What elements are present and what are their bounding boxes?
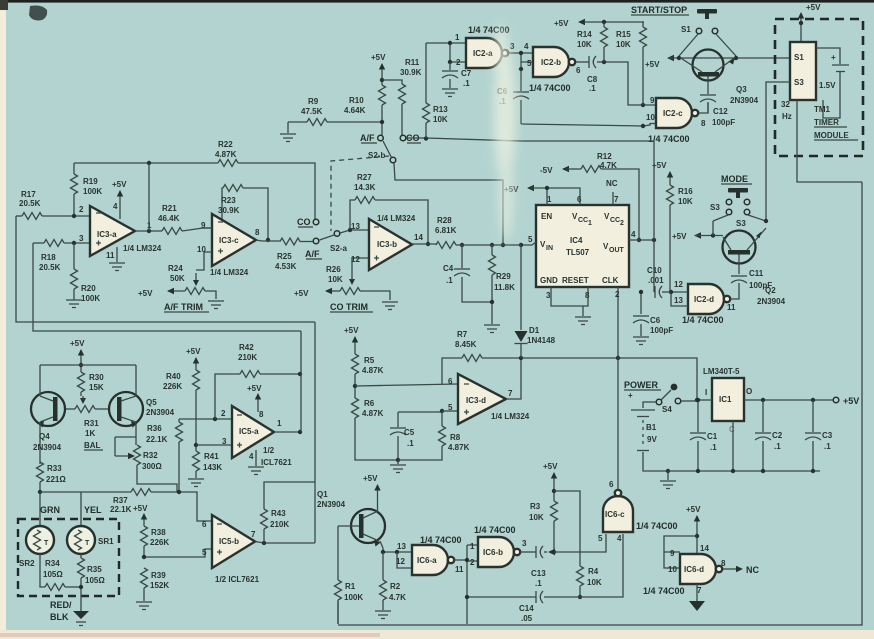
svg-text:105Ω: 105Ω [85,576,105,585]
svg-text:R31: R31 [84,419,99,428]
svg-text:8: 8 [255,228,260,237]
svg-text:R8: R8 [450,433,461,442]
svg-text:R42: R42 [239,343,254,352]
wire VIN line [460,235,536,247]
wire IC3-c pin10 to trim [196,252,212,270]
resistor R2 [380,552,407,610]
node CO (S2-b) [406,133,421,143]
svg-text:210K: 210K [238,353,257,362]
svg-text:210K: 210K [270,520,289,529]
svg-text:4: 4 [631,230,636,239]
transistor Q3 [680,50,759,106]
+5V arrow R40 [186,347,201,370]
svg-text:R25: R25 [277,252,292,261]
svg-text:R36: R36 [147,424,162,433]
svg-text:2: 2 [221,409,226,418]
svg-text:10: 10 [646,113,655,122]
svg-text:MODE: MODE [721,174,748,184]
ground R2 [375,611,391,619]
wire pin10 line [521,96,656,128]
ground IC3-a pin11 [109,247,125,271]
svg-text:R10: R10 [349,96,364,105]
resistor R21 [158,204,212,235]
svg-text:5: 5 [448,403,453,412]
svg-text:C1: C1 [707,432,718,441]
svg-text:6: 6 [448,377,453,386]
+5V arrow TL507 [504,185,582,205]
svg-text:R14: R14 [577,30,592,39]
wire IC5-b pin5 [142,549,212,559]
svg-text:2N3904: 2N3904 [730,96,759,105]
svg-text:POWER: POWER [624,380,659,390]
resistor R5 [352,354,384,398]
svg-text:3: 3 [222,437,227,446]
TL507 gnd reset pins [546,287,590,316]
wire IC1 input [697,399,712,401]
svg-text:1/2 ICL7621: 1/2 ICL7621 [215,575,260,584]
svg-text:+5V: +5V [138,289,153,298]
svg-text:IC1: IC1 [719,395,732,404]
svg-text:C6: C6 [650,316,661,325]
NAND IC6-c [598,480,633,543]
pushbutton S1 [679,9,736,56]
svg-text:R40: R40 [166,372,181,381]
wire CLK pin [615,287,620,357]
svg-text:R16: R16 [678,187,693,196]
wire IC2-d inputs [669,290,688,306]
NAND IC2-c [656,98,708,128]
svg-text:8: 8 [721,559,726,568]
svg-text:100pF: 100pF [650,326,673,335]
svg-text:13: 13 [351,222,360,231]
regulator IC1 [703,367,752,434]
resistor R27 [350,173,430,246]
svg-text:1/4 LM324: 1/4 LM324 [210,268,249,277]
svg-text:4.87K: 4.87K [215,150,237,159]
resistor R39 [141,568,170,601]
label POWER [624,380,661,390]
svg-text:C5: C5 [404,428,415,437]
ground TL507 [575,317,591,325]
resistor R17 [16,190,90,220]
svg-text:4: 4 [617,534,622,543]
svg-text:IC4: IC4 [570,236,583,245]
NAND IC2-b [533,47,581,77]
switch S4 [656,384,697,414]
dashed gang link S2 [331,156,389,231]
svg-text:IN: IN [546,245,553,252]
svg-text:143K: 143K [203,463,222,472]
svg-text:105Ω: 105Ω [43,570,63,579]
svg-text:+5V: +5V [843,396,859,406]
-5V R12 [540,152,641,242]
wire bottom run [337,602,339,624]
svg-text:IC2-a: IC2-a [473,49,493,58]
crease streak [494,25,516,240]
svg-text:-5V: -5V [540,166,553,175]
svg-text:4: 4 [113,202,118,211]
wire S2-b pole to VIN [394,163,503,245]
svg-text:.1: .1 [710,443,717,452]
svg-text:R41: R41 [204,452,219,461]
svg-text:SR2: SR2 [19,559,35,568]
svg-text:GRN: GRN [40,505,60,515]
svg-text:ICL7621: ICL7621 [261,458,292,467]
svg-text:7: 7 [697,586,702,595]
svg-text:GND: GND [540,276,558,285]
resistor R13 [423,43,449,138]
svg-text:1K: 1K [85,429,95,438]
svg-text:S2-b: S2-b [368,151,385,160]
sensor dashed box [18,519,119,596]
svg-text:+: + [831,53,836,62]
wire timer S3 out bottom [797,100,862,182]
svg-text:3: 3 [546,291,551,300]
svg-text:MODULE: MODULE [814,131,849,140]
label RED/BLK [50,600,72,622]
+5V arrow R38 [133,504,148,526]
node A/F (S2-b) [360,133,377,143]
resistor R35 [78,554,106,611]
svg-text:T: T [85,540,90,547]
svg-text:RED/: RED/ [50,600,72,610]
node A/F (S2-a) [305,249,322,259]
svg-text:1: 1 [455,33,460,42]
svg-text:Q4: Q4 [39,432,50,441]
NAND IC6-a [396,542,464,575]
svg-text:R18: R18 [41,253,56,262]
label 1/4 74C00 IC2-a [468,25,510,35]
svg-text:1: 1 [470,542,475,551]
svg-text:BLK: BLK [50,612,69,622]
svg-text:2: 2 [620,220,624,227]
svg-text:CO TRIM: CO TRIM [330,302,368,312]
svg-text:1/4 74C00: 1/4 74C00 [529,83,571,93]
wire IC6-d input loop [664,536,697,574]
label 1/4 74C00 IC2-b [529,83,571,93]
svg-text:2N3904: 2N3904 [757,297,786,306]
svg-text:10K: 10K [328,275,343,284]
label YEL [84,505,102,515]
resistor R41 [193,443,223,478]
svg-text:+5V: +5V [186,347,201,356]
svg-text:R30: R30 [89,373,104,382]
resistor R22 [215,140,315,219]
svg-text:R39: R39 [151,571,166,580]
wire S2-a pole to IC3-b pin13 [340,228,369,233]
capacitor C12 [700,77,735,128]
+5V arrow Q1 [363,474,381,512]
wire C14 to IC6-c pin4 [580,534,623,597]
svg-text:R15: R15 [616,30,631,39]
svg-text:4.7K: 4.7K [389,593,406,602]
svg-text:R32: R32 [143,451,158,460]
svg-text:5: 5 [528,235,533,244]
svg-text:10K: 10K [587,578,602,587]
wire R5R6 node to pin6 [355,384,458,386]
wire IC3-c input pin9 [203,227,212,229]
svg-text:12: 12 [674,280,683,289]
svg-text:5: 5 [527,59,532,68]
label MODE [721,174,752,184]
svg-text:+5V: +5V [371,53,386,62]
resistor R19 [71,163,103,218]
svg-text:+: + [628,391,633,400]
capacitor C10 [647,266,671,298]
op-amp IC5-b [202,515,256,568]
capacitor C11 [731,255,772,300]
IC6-d pin7 return [689,584,705,611]
wire IC6-c output to CLK [617,357,619,490]
svg-text:4.7K: 4.7K [600,161,617,170]
svg-text:C14: C14 [519,604,534,613]
svg-text:12: 12 [351,255,360,264]
svg-text:+5V: +5V [294,289,309,298]
svg-text:YEL: YEL [84,505,102,515]
transistor Q1 [338,509,385,548]
svg-text:32: 32 [781,100,790,109]
resistor R20 [71,243,101,303]
svg-text:R1: R1 [345,582,356,591]
resistor R11 [382,58,422,135]
svg-text:TM1: TM1 [814,105,831,114]
svg-text:C12: C12 [713,107,728,116]
svg-text:5: 5 [598,534,603,543]
op-amp IC5-a [232,406,282,461]
svg-text:IC3-b: IC3-b [377,240,397,249]
resistor R6 [352,398,399,460]
svg-text:4.87K: 4.87K [362,409,384,418]
label 1/4 74C00 IC6-a [420,535,462,545]
svg-text:6: 6 [202,520,207,529]
capacitor C6 100pF [633,290,673,336]
svg-text:R37: R37 [113,496,128,505]
svg-text:R20: R20 [81,284,96,293]
svg-text:R24: R24 [168,264,183,273]
op-amp IC3-d [448,374,513,424]
svg-text:7: 7 [508,389,513,398]
svg-text:4: 4 [524,42,529,51]
sensor SR2 [19,492,54,568]
svg-text:S1: S1 [681,25,691,34]
transistor Q2 [723,219,786,306]
svg-text:46.4K: 46.4K [158,214,180,223]
svg-text:5: 5 [202,548,207,557]
svg-text:OUT: OUT [609,247,625,254]
ground C7 [442,89,458,97]
+5V arrow R30 [70,339,85,372]
wire feedback B left [33,243,301,331]
svg-text:C13: C13 [531,569,546,578]
capacitor C6 (.1) [497,62,529,124]
svg-text:IC2-d: IC2-d [694,295,714,304]
ground CO trim [382,302,398,310]
label 32 Hz [781,100,792,121]
svg-text:R13: R13 [433,105,448,114]
svg-text:.1: .1 [535,579,542,588]
svg-text:1/4 LM324: 1/4 LM324 [377,214,416,223]
svg-text:226K: 226K [163,382,182,391]
capacitor C1 [690,398,718,471]
svg-text:2N3904: 2N3904 [33,443,62,452]
svg-text:3: 3 [522,539,527,548]
resistor R30 [78,372,105,396]
svg-text:1/4 74C00: 1/4 74C00 [682,315,724,325]
svg-text:100K: 100K [344,593,363,602]
wire VOUT [629,230,656,242]
svg-text:2: 2 [456,58,461,67]
svg-text:.1: .1 [407,439,414,448]
svg-text:B1: B1 [646,423,657,432]
capacitor C13 [520,546,555,588]
resistor R8 [398,411,470,460]
resistor R28 [412,216,521,249]
svg-text:R3: R3 [530,502,541,511]
svg-text:IC6-c: IC6-c [605,510,625,519]
svg-text:22.1K: 22.1K [146,435,168,444]
wire IC2-a out to IC2-b [508,42,533,68]
+5V arrow S1 rail [645,55,790,69]
svg-text:R34: R34 [45,559,60,568]
wire IC3-c output [256,240,280,241]
switch S2-a [313,219,347,253]
corner mark [29,6,47,21]
svg-text:1: 1 [588,220,592,227]
wire output loop to bridge [314,322,316,543]
capacitor C5 [390,412,415,462]
svg-text:R28: R28 [437,216,452,225]
svg-text:S1: S1 [794,53,804,62]
resistor R42 [215,343,302,419]
svg-text:T: T [44,540,49,547]
resistor R43 [261,482,316,543]
label 1/2 ICL7621 b [215,575,260,584]
svg-text:R22: R22 [218,140,233,149]
svg-text:2N3904: 2N3904 [317,500,346,509]
svg-text:10K: 10K [678,197,693,206]
svg-text:NC: NC [746,565,759,575]
svg-text:R19: R19 [83,177,98,186]
svg-text:CC: CC [578,217,588,224]
resistor R4 [554,491,602,599]
svg-text:IC2-c: IC2-c [663,109,683,118]
+5V arrow R3 [543,462,558,501]
svg-text:+5V: +5V [70,339,85,348]
svg-text:+5V: +5V [554,19,569,28]
svg-text:9: 9 [650,96,655,105]
diode D1 1N4148 [515,245,556,358]
wire IC2-a input loop [426,41,466,64]
svg-text:R23: R23 [221,196,236,205]
sensor SR1 [67,492,114,554]
svg-text:10K: 10K [433,115,448,124]
svg-text:100pF: 100pF [749,281,772,290]
svg-text:+5V: +5V [543,462,558,471]
wire IC5-a output [274,331,302,434]
svg-text:C: C [729,425,735,434]
svg-text:11: 11 [455,565,464,574]
svg-text:15K: 15K [89,383,104,392]
svg-text:226K: 226K [150,538,169,547]
svg-text:TL507: TL507 [566,248,590,257]
svg-text:.05: .05 [521,614,533,623]
svg-text:1/4 74C00: 1/4 74C00 [643,586,685,596]
svg-text:.1: .1 [589,84,596,93]
resistor R33 [37,462,67,492]
+5V arrow Q2 base [672,221,723,241]
svg-text:6: 6 [576,66,581,75]
svg-text:IC3-a: IC3-a [97,230,117,239]
label GRN [40,505,60,515]
ground under R20 [66,300,82,308]
label TM1 TIMER MODULE [814,105,858,140]
wire Q1 base R1 [337,526,339,580]
wire comparator node to CLK and power [521,356,699,402]
svg-text:+5V: +5V [686,505,701,514]
svg-text:1/4 74C00: 1/4 74C00 [420,535,462,545]
svg-text:11: 11 [727,303,736,312]
label 1/4 74C00 IC6-b [474,525,516,535]
wire IC5-a pin3 [196,437,232,446]
svg-text:R7: R7 [457,330,468,339]
svg-text:EN: EN [541,212,552,221]
NAND IC2-d [674,280,739,314]
svg-text:9V: 9V [647,435,657,444]
wire C8 node to IC2-c pin9 [602,60,656,107]
svg-text:7: 7 [614,195,619,204]
svg-text:7: 7 [251,530,256,539]
svg-text:6.81K: 6.81K [435,226,457,235]
svg-text:C8: C8 [587,75,598,84]
svg-text:R26: R26 [326,265,341,274]
svg-text:IC5-b: IC5-b [219,537,239,546]
svg-text:CC: CC [610,217,620,224]
label 1/4 LM324 IC3-c [210,268,249,277]
svg-text:1/4 74C00: 1/4 74C00 [636,521,678,531]
svg-text:3: 3 [510,42,515,51]
wire IC5-b output [255,541,315,545]
svg-text:8.45K: 8.45K [455,340,477,349]
svg-text:100pF: 100pF [712,118,735,127]
capacitor C4 [443,245,492,302]
capacitor C7 [442,62,472,88]
wire R3 node to IC6-c pin5 [554,534,606,552]
svg-text:4.87K: 4.87K [448,443,470,452]
svg-text:2: 2 [615,290,620,299]
svg-text:9: 9 [670,549,675,558]
wire R37 node [38,490,131,494]
svg-text:+5V: +5V [672,232,687,241]
svg-text:Q5: Q5 [146,398,157,407]
svg-text:1: 1 [547,195,552,204]
wire C5 to pin5 node [398,409,458,413]
svg-text:8: 8 [701,119,706,128]
svg-text:10K: 10K [616,40,631,49]
svg-text:S4: S4 [662,405,672,414]
wire IC6-d output NC [723,565,759,575]
svg-text:IC5-a: IC5-a [239,427,259,436]
label A/F TRIM [164,302,209,312]
svg-text:R4: R4 [588,567,599,576]
wire Q4 Q5 collector rail [40,364,136,366]
svg-text:NC: NC [606,179,618,188]
ground R29 [484,325,500,333]
wire IC6-a out to IC6-b [454,542,478,624]
potentiometer R24 A/F TRIM [138,264,216,299]
potentiometer R26 CO TRIM [294,258,390,300]
wire timer S3 to Q2 node [766,82,790,220]
pin7 NC TL507 [606,179,619,205]
